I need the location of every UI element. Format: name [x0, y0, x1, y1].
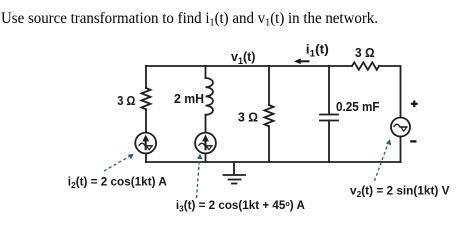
ground symbol — [233, 162, 235, 175]
wire middle resistor branch lower — [268, 126, 270, 162]
wire left branch lower — [145, 154, 147, 163]
wire top horizontal — [146, 65, 352, 67]
svg-text:v2(t) = 2 sin(1kt) V: v2(t) = 2 sin(1kt) V — [350, 183, 450, 199]
voltage source V2 circle — [391, 118, 410, 137]
label minus sign — [410, 140, 416, 142]
svg-text:3 Ω: 3 Ω — [355, 46, 375, 60]
wire left branch middle — [145, 109, 147, 132]
voltage source V2 sine glyph — [394, 124, 408, 131]
resistor R top 3ohm horizontal zigzag — [352, 62, 379, 70]
resistor R2 3ohm middle zigzag — [265, 105, 274, 126]
wire inductor branch upper — [205, 66, 207, 78]
current source I3 arrow glyph — [199, 134, 213, 150]
current source I2 circle — [135, 133, 156, 154]
resistor R1 3ohm left zigzag — [142, 88, 151, 109]
capacitor C1 0.25mF plates — [320, 114, 338, 116]
wire inductor branch lower — [205, 115, 207, 133]
svg-text:0.25 mF: 0.25 mF — [336, 100, 380, 114]
current source I3 circle — [195, 133, 216, 154]
svg-text:2 mH: 2 mH — [174, 92, 204, 106]
svg-text:i1(t): i1(t) — [306, 43, 329, 59]
svg-text:i2(t) = 2 cos(1kt) A: i2(t) = 2 cos(1kt) A — [68, 175, 167, 191]
wire right branch lower — [400, 137, 402, 163]
wire inductor branch bottom — [205, 154, 207, 163]
svg-text:v1(t): v1(t) — [231, 50, 256, 66]
arrow i1 direction — [294, 59, 310, 65]
svg-text:Use source transformation to f: Use source transformation to find i1(t) … — [1, 10, 378, 29]
inductor L 2mH coil — [206, 78, 213, 115]
wire left branch upper — [145, 66, 147, 88]
wire top right — [379, 66, 401, 118]
svg-text:3 Ω: 3 Ω — [117, 94, 135, 108]
wire bottom horizontal — [146, 161, 401, 163]
annotation arrow to I3 — [197, 154, 203, 198]
wire middle resistor branch upper — [268, 66, 270, 105]
annotation arrow to V2 — [375, 139, 392, 181]
current source I2 arrow glyph — [139, 134, 153, 150]
svg-text:3 Ω: 3 Ω — [238, 111, 258, 125]
wire capacitor branch lower — [328, 121, 330, 163]
annotation arrow to I2 — [104, 154, 134, 171]
wire capacitor branch upper — [328, 66, 330, 114]
label plus sign — [411, 100, 418, 107]
